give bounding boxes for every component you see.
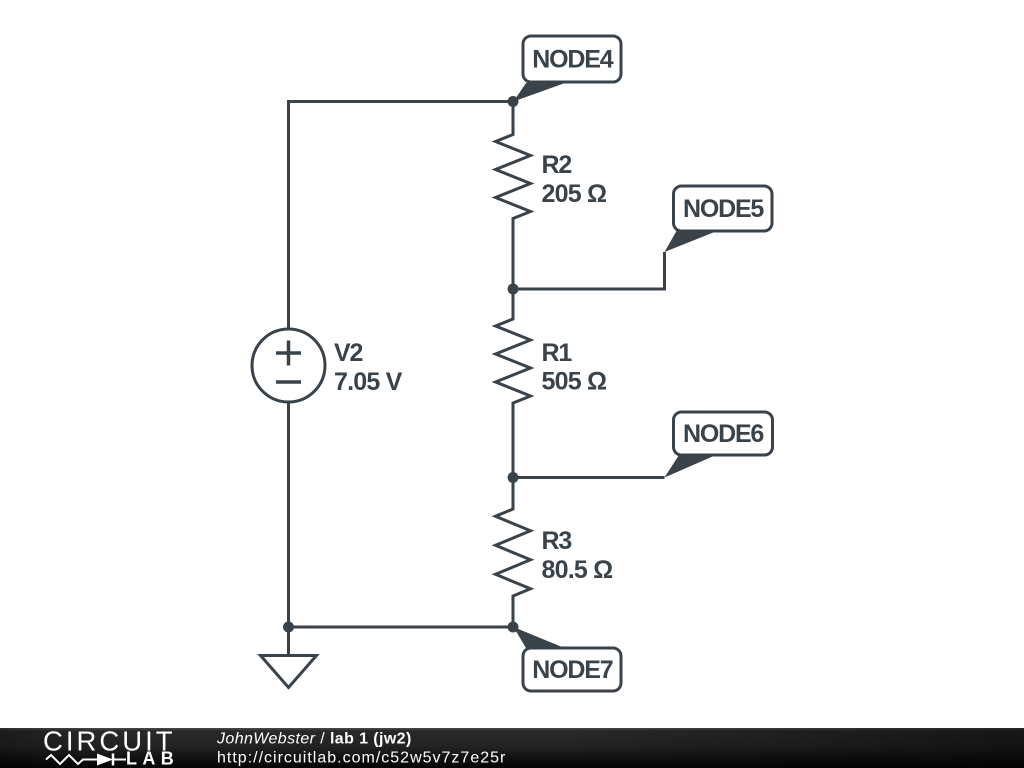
- svg-text:V2: V2: [334, 339, 362, 367]
- svg-text:7.05 V: 7.05 V: [334, 368, 403, 396]
- resistor R2 (between NODE4 and NODE5): [496, 102, 531, 290]
- svg-text:205 Ω: 205 Ω: [542, 180, 607, 208]
- wire: bottom horizontal from ground junction to NODE7 junction: [289, 626, 514, 629]
- wire: left rail from top corner down to V2 positive terminal: [287, 100, 290, 330]
- svg-text:LAB: LAB: [126, 749, 179, 768]
- resistor R3 (between NODE6 and NODE7): [496, 478, 531, 628]
- wire: NODE5 stub vertical riser: [663, 252, 666, 291]
- node NODE5 flag: [665, 186, 773, 252]
- junction: NODE5 dot: [508, 284, 519, 295]
- footer bar background: [0, 728, 1024, 768]
- node NODE4 flag: [514, 36, 622, 102]
- svg-text:R1: R1: [542, 339, 573, 367]
- svg-text:R3: R3: [542, 527, 572, 555]
- junction: NODE6 dot: [508, 472, 519, 483]
- wire: top horizontal from V2+ rail to NODE4 junction: [289, 100, 514, 103]
- svg-text:80.5 Ω: 80.5 Ω: [542, 556, 614, 584]
- CircuitLab logo diode symbol: [97, 754, 126, 766]
- svg-text:NODE5: NODE5: [683, 195, 764, 223]
- ground symbol: [261, 627, 317, 688]
- resistor R1 (between NODE5 and NODE6): [496, 289, 531, 478]
- svg-text:http://circuitlab.com/c52w5v7z: http://circuitlab.com/c52w5v7z7e25r: [217, 750, 506, 767]
- CircuitLab logo resistor squiggle: [46, 755, 97, 764]
- svg-text:505 Ω: 505 Ω: [542, 368, 607, 396]
- junction: NODE4 dot: [508, 96, 519, 107]
- wire: left rail from V2 negative terminal down to ground junction: [287, 402, 290, 628]
- junction: ground node dot: [283, 622, 294, 633]
- svg-text:NODE7: NODE7: [532, 656, 612, 684]
- wire: NODE6 stub horizontal: [513, 476, 665, 479]
- svg-text:JohnWebster / lab 1 (jw2): JohnWebster / lab 1 (jw2): [216, 731, 412, 748]
- junction: NODE7 dot: [508, 622, 519, 633]
- voltage source V2: [252, 329, 325, 402]
- wire: NODE5 stub horizontal: [513, 288, 665, 291]
- svg-text:NODE4: NODE4: [532, 46, 613, 74]
- svg-text:NODE6: NODE6: [683, 420, 763, 448]
- node NODE7 flag: [514, 627, 622, 691]
- svg-text:R2: R2: [542, 151, 572, 179]
- node NODE6 flag: [665, 412, 773, 478]
